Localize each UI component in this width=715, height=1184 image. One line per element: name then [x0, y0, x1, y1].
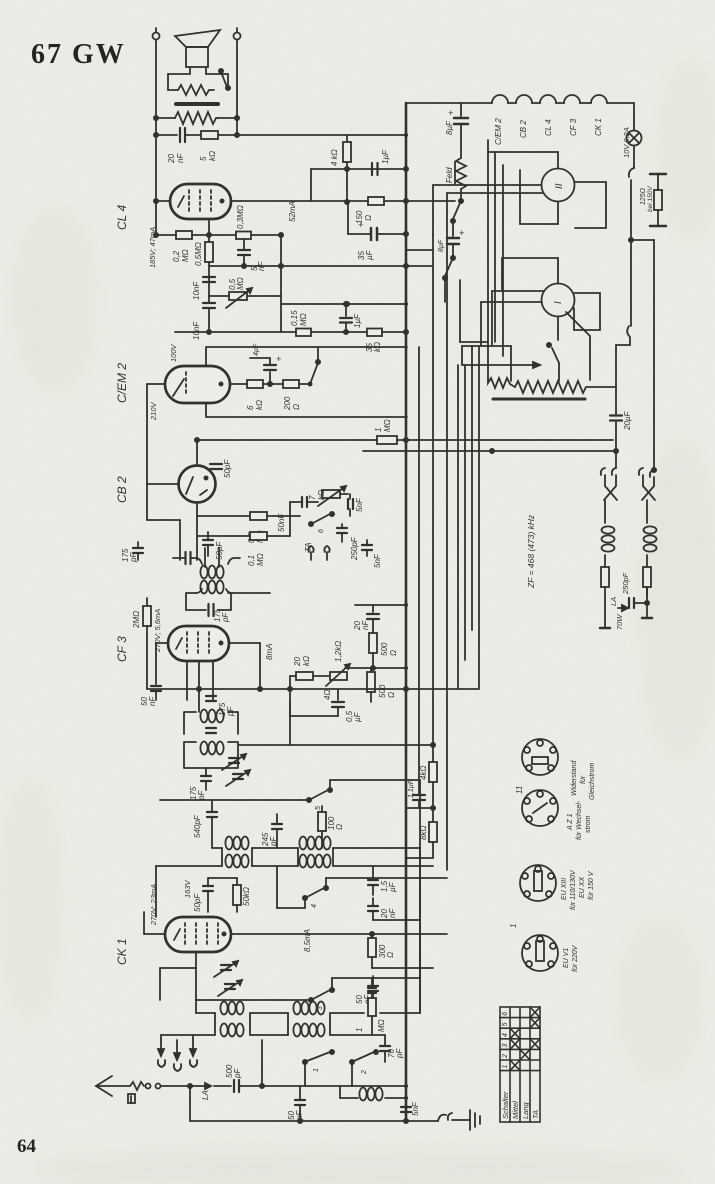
svg-text:ZF = 468 (473) kHz: ZF = 468 (473) kHz — [526, 514, 536, 589]
svg-text:500: 500 — [380, 642, 389, 656]
svg-text:4: 4 — [311, 904, 318, 908]
svg-text:500: 500 — [378, 684, 387, 698]
svg-text:5: 5 — [315, 806, 322, 810]
svg-text:5nF: 5nF — [355, 497, 364, 512]
svg-text:Schalter: Schalter — [501, 1091, 510, 1119]
svg-text:20µF: 20µF — [623, 410, 632, 431]
svg-text:1: 1 — [313, 1068, 320, 1072]
svg-text:50pF: 50pF — [193, 893, 202, 912]
svg-text:A Z 1: A Z 1 — [567, 813, 574, 831]
svg-text:2: 2 — [361, 1070, 368, 1075]
svg-text:0,15: 0,15 — [290, 310, 299, 326]
svg-text:Ω: Ω — [335, 824, 344, 830]
svg-text:20: 20 — [293, 657, 302, 667]
svg-text:µF: µF — [353, 711, 362, 722]
svg-text:kΩ: kΩ — [302, 656, 311, 666]
svg-text:8,5mA: 8,5mA — [303, 929, 312, 952]
svg-text:EU XX: EU XX — [579, 877, 586, 898]
svg-text:µF: µF — [388, 881, 397, 892]
svg-text:Lang: Lang — [521, 1101, 530, 1119]
svg-text:kΩ: kΩ — [255, 400, 264, 410]
svg-text:4 kΩ: 4 kΩ — [330, 149, 339, 166]
svg-text:CF 3: CF 3 — [115, 636, 129, 662]
svg-text:2MΩ: 2MΩ — [132, 611, 141, 629]
svg-text:8µF: 8µF — [445, 120, 454, 135]
svg-text:+: + — [459, 228, 464, 238]
svg-text:für 110/130V: für 110/130V — [570, 869, 577, 910]
svg-text:20: 20 — [167, 154, 176, 164]
svg-text:0,3MΩ: 0,3MΩ — [236, 205, 245, 229]
svg-text:bei 150V: bei 150V — [647, 186, 654, 212]
svg-text:8mA: 8mA — [265, 644, 274, 660]
svg-text:7: 7 — [308, 495, 317, 500]
svg-text:1,2kΩ: 1,2kΩ — [334, 641, 343, 662]
svg-text:1: 1 — [355, 1028, 364, 1032]
svg-text:1: 1 — [374, 428, 383, 432]
svg-text:5nF: 5nF — [411, 1101, 420, 1116]
svg-text:kΩ: kΩ — [208, 151, 217, 161]
svg-text:Ω: Ω — [389, 650, 398, 656]
svg-text:nF: nF — [361, 620, 370, 630]
svg-text:MΩ: MΩ — [299, 313, 308, 326]
svg-text:für 150 V: für 150 V — [588, 870, 595, 900]
svg-text:II: II — [554, 183, 565, 189]
svg-text:für Wechsel-: für Wechsel- — [576, 800, 583, 840]
svg-text:Mittel: Mittel — [511, 1101, 520, 1119]
svg-text:+: + — [448, 108, 453, 118]
svg-text:5: 5 — [199, 156, 208, 161]
svg-text:CB 2: CB 2 — [519, 120, 528, 138]
svg-text:4kΩ: 4kΩ — [419, 765, 428, 780]
svg-text:5: 5 — [502, 1022, 509, 1026]
svg-text:nF: nF — [388, 908, 397, 918]
svg-text:0,1: 0,1 — [247, 555, 256, 566]
svg-text:50pF: 50pF — [223, 459, 232, 478]
svg-text:Gleichstrom: Gleichstrom — [589, 762, 596, 800]
svg-text:5nF: 5nF — [373, 553, 382, 568]
svg-text:pF: pF — [269, 836, 278, 847]
svg-text:67 GW: 67 GW — [31, 39, 126, 70]
svg-text:pF: pF — [221, 612, 230, 623]
svg-text:1: 1 — [509, 924, 518, 928]
svg-text:CK 1: CK 1 — [115, 938, 129, 965]
svg-text:1µF: 1µF — [353, 313, 362, 328]
svg-text:pF: pF — [395, 1048, 404, 1059]
svg-text:pF: pF — [233, 1068, 242, 1079]
svg-text:Ω: Ω — [364, 215, 373, 221]
svg-text:125Ω: 125Ω — [640, 187, 647, 205]
svg-text:CF 3: CF 3 — [569, 118, 578, 136]
svg-text:1µF: 1µF — [381, 149, 390, 164]
svg-text:6: 6 — [502, 1012, 509, 1016]
svg-text:200: 200 — [283, 396, 292, 411]
svg-text:250pF: 250pF — [621, 572, 630, 595]
svg-text:MΩ: MΩ — [377, 1019, 386, 1032]
svg-text:50kΩ: 50kΩ — [242, 887, 251, 906]
svg-text:6: 6 — [318, 529, 325, 533]
svg-text:100V: 100V — [169, 343, 178, 362]
svg-text:MΩ: MΩ — [181, 249, 190, 262]
svg-text:11: 11 — [515, 786, 524, 794]
svg-text:4: 4 — [502, 1033, 509, 1037]
svg-text:Widerstand: Widerstand — [571, 760, 578, 796]
svg-text:52mA: 52mA — [288, 201, 297, 222]
svg-text:6: 6 — [246, 405, 255, 410]
svg-text:+: + — [276, 354, 281, 364]
svg-text:250pF: 250pF — [350, 536, 359, 561]
svg-text:MΩ: MΩ — [383, 419, 392, 432]
svg-text:4µF: 4µF — [253, 343, 260, 356]
svg-text:strom: strom — [585, 815, 592, 833]
svg-text:CB 2: CB 2 — [115, 476, 129, 503]
svg-text:163V: 163V — [183, 879, 192, 898]
svg-text:MΩ: MΩ — [236, 277, 245, 290]
svg-text:LA: LA — [609, 597, 618, 606]
svg-text:0,2: 0,2 — [172, 250, 181, 262]
svg-text:für 220V: für 220V — [572, 944, 579, 972]
svg-text:MΩ: MΩ — [256, 553, 265, 566]
svg-text:10nF: 10nF — [192, 321, 201, 340]
svg-text:8µF: 8µF — [438, 239, 445, 252]
svg-text:C/EM 2: C/EM 2 — [115, 363, 129, 403]
svg-text:LA: LA — [201, 1090, 210, 1100]
svg-text:10V 0,2A: 10V 0,2A — [622, 127, 631, 158]
svg-text:540pF: 540pF — [193, 814, 202, 838]
svg-text:CK 1: CK 1 — [594, 118, 603, 136]
svg-text:kΩ: kΩ — [373, 342, 382, 352]
svg-text:+: + — [358, 220, 363, 230]
svg-text:Feld: Feld — [445, 167, 454, 183]
svg-text:70W: 70W — [615, 614, 624, 630]
svg-text:EU XIII: EU XIII — [561, 878, 568, 900]
svg-text:Ω: Ω — [387, 692, 396, 698]
svg-text:µF: µF — [365, 249, 374, 260]
svg-text:nF: nF — [148, 696, 157, 706]
svg-text:CL 4: CL 4 — [115, 205, 129, 230]
svg-text:4Ω: 4Ω — [323, 689, 332, 700]
svg-text:Ω: Ω — [386, 952, 395, 958]
svg-text:3: 3 — [502, 1044, 509, 1048]
svg-text:C/EM 2: C/EM 2 — [494, 118, 503, 145]
svg-text:2: 2 — [502, 1054, 509, 1059]
svg-text:I: I — [553, 301, 564, 304]
svg-text:Ω: Ω — [292, 404, 301, 410]
svg-text:TA: TA — [531, 1110, 540, 1119]
svg-text:für: für — [580, 775, 587, 784]
svg-text:0,5MΩ: 0,5MΩ — [194, 242, 203, 266]
svg-text:270V; 5,6mA: 270V; 5,6mA — [153, 609, 162, 653]
svg-text:1: 1 — [502, 1065, 509, 1069]
svg-text:pF: pF — [129, 552, 138, 563]
svg-text:CL 4: CL 4 — [544, 119, 553, 136]
svg-text:kΩ: kΩ — [317, 490, 326, 500]
svg-text:10nF: 10nF — [192, 281, 201, 300]
svg-text:64: 64 — [17, 1136, 37, 1157]
svg-text:nF: nF — [176, 153, 185, 163]
svg-text:210V: 210V — [149, 401, 158, 421]
svg-text:50nF: 50nF — [277, 513, 286, 532]
svg-text:EU V1: EU V1 — [563, 948, 570, 968]
